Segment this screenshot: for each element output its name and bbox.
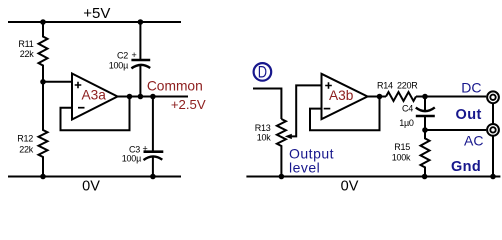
svg-text:22k: 22k: [20, 49, 35, 59]
svg-text:DC: DC: [461, 80, 481, 96]
svg-text:+: +: [132, 50, 137, 60]
wire feedback A3a: [61, 97, 130, 131]
wire A3a output: [118, 96, 189, 98]
svg-text:Common: Common: [147, 79, 203, 94]
op-amp U A3a: [72, 74, 118, 120]
wire jack chain to ground: [492, 97, 494, 176]
node R15 0V: [422, 174, 428, 180]
svg-text:A3b: A3b: [329, 88, 354, 103]
resistor R14: [386, 92, 416, 101]
connector D circle: [254, 63, 272, 81]
resistor R15: [421, 130, 430, 177]
svg-text:C2: C2: [117, 51, 128, 61]
pot wiper arrowhead: [285, 134, 292, 139]
node C3 0V: [150, 174, 156, 180]
node jack ground: [490, 174, 496, 180]
node pot 0V: [279, 174, 285, 180]
svg-text:R12: R12: [17, 134, 33, 144]
jack DC Out: [487, 91, 499, 103]
svg-text:D: D: [258, 64, 267, 82]
svg-text:100µ: 100µ: [109, 60, 128, 70]
svg-text:22k: 22k: [19, 145, 34, 155]
wire R14 to DC jack: [416, 96, 486, 98]
svg-text:level: level: [289, 159, 320, 175]
plus symbol A3b: [325, 82, 332, 89]
capacitor C3: [152, 97, 154, 151]
capacitor C4: [424, 97, 426, 111]
op-amp U A3b: [322, 74, 368, 119]
node C2 output: [138, 94, 144, 100]
node C4 output: [422, 94, 428, 100]
svg-text:A3a: A3a: [82, 88, 107, 103]
node R11 R12 +in: [40, 79, 46, 85]
wire node D to pot R13: [253, 89, 281, 120]
svg-text:R11: R11: [18, 39, 33, 49]
svg-text:AC: AC: [464, 132, 483, 148]
node R12 0V: [40, 174, 46, 180]
svg-text:1µ0: 1µ0: [399, 118, 414, 128]
node C3 output: [150, 94, 156, 100]
node C4 AC: [422, 127, 428, 133]
wire A3b output: [368, 96, 387, 98]
potentiometer R13: [277, 119, 286, 177]
resistor R12: [39, 82, 48, 177]
node feedback A3b output: [377, 94, 383, 100]
wire pot wiper to +in A3b: [291, 85, 322, 136]
resistor R11: [39, 22, 48, 82]
svg-text:C4: C4: [402, 104, 413, 114]
capacitor C2: [139, 22, 141, 59]
svg-text:Out: Out: [456, 107, 482, 123]
svg-text:+5V: +5V: [83, 5, 110, 22]
wire 0V rail right: [246, 176, 500, 178]
minus symbol A3a: [78, 107, 85, 109]
svg-text:10k: 10k: [257, 133, 272, 143]
svg-text:R15: R15: [394, 142, 410, 152]
wire +5V rail: [8, 21, 181, 23]
svg-text:220R: 220R: [397, 81, 418, 91]
node top rail C2: [138, 19, 144, 25]
node feedback A3a output: [127, 94, 133, 100]
svg-text:0V: 0V: [341, 179, 359, 195]
svg-text:+2.5V: +2.5V: [171, 97, 206, 112]
node top rail R11: [40, 19, 46, 25]
svg-text:100k: 100k: [392, 153, 411, 163]
jack AC: [487, 124, 499, 136]
plus symbol A3a: [75, 82, 82, 89]
svg-text:R13: R13: [255, 123, 271, 133]
svg-text:Gnd: Gnd: [451, 159, 481, 175]
wire node to +in A3a: [43, 81, 72, 83]
svg-text:100µ: 100µ: [122, 153, 141, 163]
svg-text:0V: 0V: [82, 179, 100, 195]
svg-text:R14: R14: [377, 81, 393, 91]
wire feedback A3b: [310, 97, 380, 131]
wire C4 to AC jack: [425, 129, 486, 131]
minus symbol A3b: [324, 108, 331, 110]
svg-text:+: +: [143, 144, 148, 154]
wire 0V rail left: [8, 176, 181, 178]
